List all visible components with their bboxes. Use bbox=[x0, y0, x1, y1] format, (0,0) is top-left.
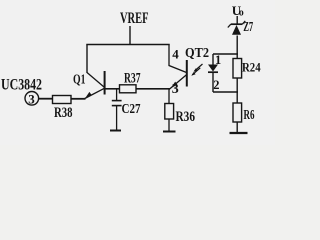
QT2 light arrows bbox=[191, 64, 202, 76]
resistor R6 bbox=[233, 103, 242, 122]
svg-text:R36: R36 bbox=[176, 109, 196, 125]
wire R37 to node 3 bbox=[136, 88, 170, 90]
QT2 phototransistor bar bbox=[186, 60, 188, 87]
svg-text:4: 4 bbox=[172, 47, 179, 62]
svg-text:R6: R6 bbox=[244, 107, 255, 122]
wire Uo to Z7 bbox=[236, 16, 238, 24]
svg-text:R37: R37 bbox=[124, 71, 141, 87]
svg-text:UC3842: UC3842 bbox=[1, 77, 42, 94]
svg-text:Z7: Z7 bbox=[243, 19, 253, 34]
wire R24 to R6 bbox=[236, 78, 238, 103]
wire LED top to right rail bbox=[213, 53, 238, 55]
VREF rail wire bbox=[86, 44, 169, 46]
resistor R38 bbox=[53, 96, 72, 104]
svg-text:3: 3 bbox=[172, 82, 179, 97]
svg-text:C27: C27 bbox=[122, 102, 141, 117]
svg-text:R38: R38 bbox=[54, 105, 73, 121]
svg-text:3: 3 bbox=[28, 91, 35, 106]
wire Q1 collector to VREF rail bbox=[86, 45, 88, 74]
svg-text:o: o bbox=[239, 8, 244, 19]
wire R6 to ground bbox=[236, 122, 238, 133]
resistor R36 bbox=[165, 89, 196, 131]
svg-text:Q1: Q1 bbox=[73, 72, 86, 87]
capacitor C27 bbox=[112, 89, 141, 130]
svg-text:2: 2 bbox=[213, 78, 219, 92]
right rail Z7 to R24 bbox=[236, 36, 238, 59]
QT2 emitter wire to node 3 bbox=[169, 75, 187, 90]
wire rail to QT2 collector pin 4 bbox=[169, 45, 187, 73]
ground under R36 bbox=[163, 131, 176, 133]
base wire Q1 to R37 bbox=[105, 88, 120, 90]
zener diode Z7 bbox=[228, 21, 246, 35]
wire LED bottom to right rail bbox=[213, 91, 238, 93]
svg-text:VREF: VREF bbox=[120, 10, 149, 27]
pin 3 terminal circle of UC3842 bbox=[25, 92, 39, 106]
svg-text:QT2: QT2 bbox=[185, 46, 209, 61]
svg-text:1: 1 bbox=[215, 53, 221, 67]
ground under C27 bbox=[110, 130, 121, 132]
wire R38 to Q1 emitter bbox=[71, 98, 86, 100]
transistor Q1 bbox=[73, 71, 105, 99]
VREF stem wire bbox=[129, 26, 131, 45]
svg-text:R24: R24 bbox=[242, 60, 261, 75]
wire pin3 to R38 bbox=[39, 98, 53, 100]
resistor R37 bbox=[120, 85, 137, 93]
ground under R6 bbox=[230, 132, 248, 134]
resistor R24 bbox=[233, 59, 242, 79]
LED of QT2 bbox=[208, 54, 218, 92]
